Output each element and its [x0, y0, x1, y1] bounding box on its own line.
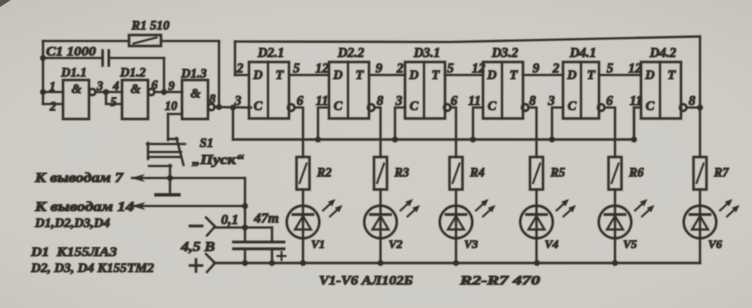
wire to pins 7 arrow: [131, 174, 245, 182]
pin 4 label: [112, 79, 119, 93]
plus sign: [190, 260, 202, 272]
pin 1 label: [49, 80, 55, 94]
LED V5: [599, 199, 655, 239]
svg-text:11: 11: [630, 93, 643, 108]
LED V1: [287, 199, 343, 239]
label D1 D2 D3 D4: [34, 216, 110, 230]
svg-text:V3: V3: [464, 237, 478, 251]
wire R5 to V4: [535, 190, 537, 207]
label 0,1: [221, 213, 239, 228]
LED V6: [684, 199, 740, 239]
wire Q out of D3.2: [529, 108, 537, 158]
wire D input of D2.1: [235, 74, 249, 76]
svg-text:3: 3: [234, 93, 242, 108]
wire down right branch: [244, 178, 246, 241]
label R7: [713, 166, 729, 180]
label S1: [200, 135, 214, 150]
label R1 510: [131, 18, 170, 33]
label C of D2.2: [334, 98, 343, 113]
pin label D D3.2: [472, 61, 486, 76]
svg-text:R2: R2: [316, 166, 332, 180]
wire C input of D4.2: [634, 108, 641, 140]
photo corner artifact top-left: [0, 0, 11, 7]
inverter circle Q of D2.1: [288, 104, 295, 111]
svg-text:К выводам 7: К выводам 7: [34, 170, 125, 185]
svg-text:D3.2: D3.2: [491, 45, 519, 60]
label D4.2: [649, 45, 677, 60]
wire pin 1: [43, 91, 63, 93]
rail junction x380: [378, 260, 384, 266]
svg-text:47m: 47m: [253, 212, 279, 227]
svg-text:0,1: 0,1: [221, 213, 239, 228]
inverter circle D1.1 out: [89, 89, 95, 95]
wire R6 to V5: [614, 190, 616, 207]
label D2 D3 D4 K155TM2: [30, 260, 155, 275]
flip-flop D4.2: [641, 62, 681, 119]
pin label C D3.1: [395, 93, 403, 108]
svg-text:4,5 В: 4,5 В: [180, 239, 215, 254]
minus sign: [190, 225, 202, 228]
svg-text:T: T: [668, 67, 677, 82]
label D of D4.1: [566, 67, 577, 82]
label 47m: [253, 212, 279, 227]
svg-text:C1 1000: C1 1000: [46, 44, 97, 59]
wire pin 3 to pin 4: [95, 91, 122, 93]
svg-text:6: 6: [451, 93, 458, 108]
gate D1.2: [122, 80, 148, 119]
pin label C D2.2: [316, 93, 329, 108]
pin label C D4.2: [630, 93, 643, 108]
inverter circle Q of D3.1: [444, 104, 451, 111]
label C of D3.1: [410, 98, 419, 113]
svg-text:5: 5: [293, 61, 300, 76]
svg-text:9: 9: [168, 79, 175, 93]
label D of D2.1: [252, 67, 263, 82]
svg-text:2: 2: [236, 61, 244, 76]
node minus cap1 junction: [242, 225, 248, 231]
svg-text:T: T: [276, 67, 285, 82]
svg-text:9: 9: [376, 61, 383, 76]
pin label T out D2.1: [293, 61, 300, 76]
pin label Q D4.2: [689, 93, 696, 108]
label V6: [708, 237, 722, 251]
wire R2 to V1: [302, 190, 304, 207]
wire Q out of D3.1: [451, 108, 457, 158]
svg-text:V4: V4: [545, 237, 559, 251]
svg-text:D: D: [252, 67, 263, 82]
pin label C D2.1: [234, 93, 242, 108]
label T of D2.1: [276, 67, 285, 82]
svg-text:R3: R3: [394, 166, 410, 180]
pin label D D4.2: [628, 61, 642, 76]
wire D input of D2.2: [289, 74, 329, 76]
svg-text:S1: S1: [200, 135, 214, 150]
svg-text:V1-V6 АЛ102Б: V1-V6 АЛ102Б: [319, 273, 413, 288]
caption R2-R7 470: [459, 273, 541, 288]
svg-text:R1 510: R1 510: [131, 18, 170, 33]
LED V2: [364, 199, 420, 239]
svg-text:D1,D2,D3,D4: D1,D2,D3,D4: [34, 216, 110, 230]
capacitor 0,1: [234, 242, 258, 263]
label R2: [316, 166, 332, 180]
switch S1: [147, 138, 185, 178]
svg-text:C: C: [568, 98, 577, 113]
svg-text:D4.1: D4.1: [569, 45, 597, 60]
svg-text:3: 3: [547, 93, 555, 108]
svg-text:11: 11: [316, 93, 329, 108]
svg-text:D1.2: D1.2: [119, 65, 146, 80]
wire C input of D3.1: [395, 108, 405, 140]
label V1: [311, 237, 325, 251]
node C drop D2.2: [315, 137, 321, 143]
svg-text:5: 5: [110, 95, 116, 109]
label V5: [623, 237, 637, 251]
node R1 junction: [216, 104, 222, 110]
label D1.3: [180, 66, 207, 81]
flip-flop D3.2: [483, 62, 523, 119]
wire Q out of D4.1: [605, 108, 616, 158]
svg-text:D: D: [644, 67, 655, 82]
gate D1.3: [182, 80, 208, 119]
wire Q out of D2.1: [295, 108, 304, 158]
rail junction x303: [300, 260, 306, 266]
svg-text:D1.1: D1.1: [60, 65, 87, 80]
pin 8 label: [209, 92, 216, 106]
wire minus row: [214, 226, 272, 228]
pin label C D3.2: [468, 93, 481, 108]
svg-text:11: 11: [468, 93, 481, 108]
svg-text:10: 10: [165, 99, 178, 113]
wire pin 10: [168, 114, 182, 140]
wire Q out of D4.2: [687, 108, 701, 158]
wire to pin 5: [106, 92, 122, 104]
svg-text:D: D: [486, 67, 497, 82]
wire C input of D2.2: [318, 108, 329, 140]
label D of D2.2: [332, 67, 343, 82]
node pin1 junction: [40, 89, 46, 95]
label C1 1000: [46, 44, 97, 59]
inverter circle D1.2 out: [148, 89, 154, 95]
pin 10 label: [165, 99, 178, 113]
wire D input of D3.2: [445, 74, 483, 76]
svg-text:12: 12: [315, 61, 329, 76]
label T of D2.2: [356, 67, 365, 82]
wire D input of D4.2: [599, 74, 641, 76]
label D3.1: [413, 45, 441, 60]
clock bus: [233, 108, 634, 140]
wire V5 to rail: [614, 239, 616, 264]
node C drop D4.2: [631, 137, 637, 143]
ground bar: [156, 178, 179, 195]
wire pin 8 to D2.1 C: [214, 106, 251, 109]
label R6: [628, 166, 644, 180]
svg-text:&: &: [130, 81, 140, 96]
wire node A to R1 left: [43, 40, 129, 42]
svg-text:V2: V2: [389, 237, 403, 251]
label R4: [469, 166, 485, 180]
plus label of 47m: [278, 252, 286, 260]
pin label T out D3.1: [447, 61, 454, 76]
label D1 K155LA3: [30, 244, 118, 259]
battery plus terminal: [206, 254, 215, 272]
svg-text:R7: R7: [713, 166, 729, 180]
LED V3: [440, 199, 496, 239]
inverter circle Q of D2.2: [368, 104, 375, 111]
wire to pins 14 arrow: [132, 202, 246, 210]
pin label T out D4.1: [607, 61, 614, 76]
label K vyvodam 7: [34, 170, 125, 185]
label D of D3.2: [486, 67, 497, 82]
flip-flop D3.1: [405, 62, 445, 119]
svg-text:8: 8: [529, 93, 536, 108]
label 4,5 V: [180, 239, 215, 254]
svg-text:4: 4: [112, 79, 119, 93]
label Pusk: [192, 152, 244, 167]
pin label Q D2.1: [297, 93, 304, 108]
node C drop D3.1: [392, 137, 398, 143]
label D of D3.1: [408, 67, 419, 82]
pin label T out D2.2: [376, 61, 383, 76]
label V3: [464, 237, 478, 251]
svg-text:D1 К155ЛА3: D1 К155ЛА3: [30, 244, 118, 259]
svg-text:D2.2: D2.2: [337, 45, 365, 60]
label & of D1.1: [71, 81, 81, 96]
wire V3 to rail: [455, 239, 457, 264]
rail junction x272: [269, 260, 275, 266]
label D1.1: [60, 65, 87, 80]
svg-text:2: 2: [552, 61, 560, 76]
LED V4: [520, 199, 576, 239]
svg-text:T: T: [432, 67, 441, 82]
svg-text:6: 6: [297, 93, 304, 108]
label C of D4.2: [646, 98, 655, 113]
wire Q out of D2.2: [375, 108, 381, 158]
svg-text:8: 8: [209, 92, 216, 106]
label D2.2: [337, 45, 365, 60]
wire pin 2: [43, 103, 63, 105]
label V2: [389, 237, 403, 251]
flip-flop D2.1: [249, 62, 289, 119]
svg-text:2: 2: [49, 100, 56, 114]
label D3.2: [491, 45, 519, 60]
node clock junction: [230, 105, 236, 111]
svg-text:&: &: [71, 81, 81, 96]
wire R1 right to node 8 drop: [161, 41, 219, 106]
svg-text:12: 12: [472, 61, 486, 76]
svg-text:C: C: [488, 98, 497, 113]
wire R4 to V3: [455, 190, 457, 207]
wire C1 right: [110, 58, 164, 92]
wire pin 6 to pin 9: [154, 91, 182, 93]
resistor R5: [530, 157, 543, 190]
rail junction x537: [534, 260, 540, 266]
pin label D D2.2: [315, 61, 329, 76]
resistor R1: [129, 35, 161, 46]
battery minus terminal: [206, 218, 215, 236]
label T of D4.1: [587, 67, 596, 82]
svg-text:V1: V1: [311, 237, 325, 251]
label D of D4.2: [644, 67, 655, 82]
bottom supply rail: [214, 262, 700, 265]
label D2.1: [257, 45, 285, 60]
label & of D1.2: [130, 81, 140, 96]
svg-text:5: 5: [447, 61, 454, 76]
pin 3 label: [96, 79, 103, 93]
capacitor C1: [103, 51, 109, 66]
pin label D D2.1: [236, 61, 244, 76]
label R5: [550, 166, 566, 180]
pin label T out D3.2: [533, 61, 540, 76]
svg-text:12: 12: [628, 61, 642, 76]
wire C input of D3.2: [473, 108, 483, 140]
svg-text:D: D: [566, 67, 577, 82]
wire V6 to rail: [699, 239, 701, 264]
svg-text:D: D: [332, 67, 343, 82]
pin label Q D3.2: [529, 93, 536, 108]
svg-text:6: 6: [151, 78, 158, 92]
svg-text:„Пуск“: „Пуск“: [192, 152, 244, 167]
resistor R6: [609, 157, 622, 190]
pin label Q D4.1: [606, 93, 613, 108]
node pins 14 junction: [242, 203, 248, 209]
label C of D3.2: [488, 98, 497, 113]
node D1.2 output junction: [161, 89, 167, 95]
svg-text:R5: R5: [550, 166, 566, 180]
svg-text:3: 3: [395, 93, 403, 108]
svg-text:V5: V5: [623, 237, 637, 251]
node C1 left junction: [40, 55, 46, 61]
flip-flop D2.2: [329, 62, 369, 119]
pin 9 label: [168, 79, 175, 93]
label & of D1.3: [190, 86, 200, 101]
pin label Q D3.1: [451, 93, 458, 108]
resistor R4: [450, 157, 463, 190]
pin 5 label: [110, 95, 116, 109]
svg-text:D3.1: D3.1: [413, 45, 441, 60]
svg-text:D1.3: D1.3: [180, 66, 207, 81]
node C drop D3.2: [470, 137, 476, 143]
wire to C1: [43, 57, 102, 59]
label C of D2.1: [254, 98, 263, 113]
svg-text:8: 8: [689, 93, 696, 108]
node C drop D4.1: [549, 137, 555, 143]
caption V1-V6 AL102B: [319, 273, 413, 288]
label T of D3.1: [432, 67, 441, 82]
inverter circle Q of D4.1: [598, 104, 605, 111]
inverter circle Q of D4.2: [680, 104, 687, 111]
resistor R7: [694, 157, 707, 190]
rail junction x456: [453, 260, 459, 266]
label T of D3.2: [510, 67, 519, 82]
wire D input of D4.1: [523, 74, 563, 76]
svg-text:D2, D3, D4 К155ТМ2: D2, D3, D4 К155ТМ2: [30, 260, 155, 275]
label R3: [394, 166, 410, 180]
label T of D4.2: [668, 67, 677, 82]
svg-text:C: C: [410, 98, 419, 113]
svg-text:C: C: [334, 98, 343, 113]
svg-text:C: C: [254, 98, 263, 113]
svg-text:8: 8: [377, 93, 384, 108]
svg-text:D: D: [408, 67, 419, 82]
pin 2 label: [49, 100, 56, 114]
pin label Q D2.2: [377, 93, 384, 108]
wire C input of D4.1: [552, 108, 563, 140]
resistor R2: [297, 157, 310, 190]
svg-text:T: T: [510, 67, 519, 82]
svg-text:2: 2: [396, 61, 404, 76]
svg-text:T: T: [587, 67, 596, 82]
wire V4 to rail: [535, 239, 537, 264]
svg-text:R6: R6: [628, 166, 644, 180]
node D4.2 out junction: [697, 105, 703, 111]
flip-flop D4.1: [563, 62, 599, 119]
pin label D D3.1: [396, 61, 404, 76]
label K vyvodam 14: [34, 199, 135, 214]
label C of D4.1: [568, 98, 577, 113]
wire left bus pins 1-2: [42, 41, 44, 104]
rail junction x245: [242, 260, 248, 266]
svg-text:C: C: [646, 98, 655, 113]
feedback wire top: [235, 37, 700, 108]
label V4: [545, 237, 559, 251]
resistor R3: [374, 157, 387, 190]
svg-text:R2-R7 470: R2-R7 470: [459, 273, 541, 288]
svg-text:9: 9: [533, 61, 540, 76]
svg-text:1: 1: [49, 80, 55, 94]
svg-text:D4.2: D4.2: [649, 45, 677, 60]
pin label C D4.1: [547, 93, 555, 108]
svg-text:D2.1: D2.1: [257, 45, 285, 60]
svg-text:V6: V6: [708, 237, 722, 251]
wire R3 to V2: [379, 190, 381, 207]
pin label D D4.1: [552, 61, 560, 76]
svg-text:3: 3: [96, 79, 103, 93]
svg-text:5: 5: [607, 61, 614, 76]
pin 6 label: [151, 78, 158, 92]
label D4.1: [569, 45, 597, 60]
wire V2 to rail: [379, 239, 381, 264]
wire V1 to rail: [302, 239, 304, 264]
node S1 bottom junction: [167, 175, 173, 181]
inverter circle Q of D3.2: [522, 104, 529, 111]
svg-text:К выводам 14: К выводам 14: [34, 199, 135, 214]
inverter circle D1.3 out: [208, 104, 214, 110]
wire D input of D3.1: [369, 74, 405, 76]
label D1.2: [119, 65, 146, 80]
node pins 4-5 junction: [103, 89, 109, 95]
svg-text:T: T: [356, 67, 365, 82]
svg-text:R4: R4: [469, 166, 485, 180]
svg-text:&: &: [190, 86, 200, 101]
capacitor 47m: [260, 228, 284, 264]
rail junction x615: [612, 260, 618, 266]
svg-text:6: 6: [606, 93, 613, 108]
wire R7 to V6: [699, 190, 701, 207]
gate D1.1: [63, 80, 89, 119]
